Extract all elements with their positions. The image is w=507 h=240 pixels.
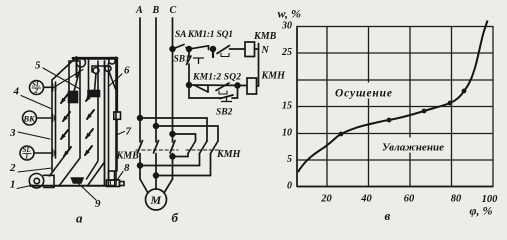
curve data point 2 xyxy=(387,118,392,123)
duct right wall xyxy=(115,57,117,185)
button SB2 actuator xyxy=(222,97,232,102)
axis bottom emphasized xyxy=(297,186,493,188)
grain flow arrow 8 xyxy=(85,146,92,155)
KMH linkage dashed xyxy=(186,149,221,151)
limit switch SQ1 blade xyxy=(217,46,230,54)
base line xyxy=(30,185,115,187)
grain flow arrow 1 xyxy=(61,94,68,103)
svg-text:30: 30 xyxy=(281,21,292,32)
gate 9 (black) xyxy=(72,178,84,183)
svg-text:5: 5 xyxy=(287,154,292,165)
body roof slant left xyxy=(52,59,75,81)
body top edge xyxy=(69,60,80,62)
leader line label 6 xyxy=(109,74,123,87)
pulley P1 xyxy=(77,58,86,67)
leader line label 5 xyxy=(43,68,80,89)
svg-text:10: 10 xyxy=(282,128,292,139)
grain flow arrow 4 xyxy=(87,110,94,119)
frame left post xyxy=(76,57,78,77)
right foot rect xyxy=(107,180,120,187)
node row2 xyxy=(187,83,192,88)
svg-text:8: 8 xyxy=(124,162,130,174)
right foot hatch xyxy=(111,180,115,187)
svg-text:φ, %: φ, % xyxy=(470,204,493,218)
horizontal gridline 20 xyxy=(297,79,493,81)
motor M circle xyxy=(146,189,167,210)
svg-text:М: М xyxy=(150,193,162,207)
phase line B xyxy=(155,18,157,142)
svg-text:КМВ: КМВ xyxy=(116,151,140,162)
grain flow arrow 7 xyxy=(64,147,71,156)
svg-text:9: 9 xyxy=(95,198,101,210)
contact KM1:2 blade xyxy=(194,85,208,92)
grain flow arrow 5 xyxy=(61,130,68,139)
svg-text:SB2: SB2 xyxy=(216,108,233,118)
node after KM1:1 xyxy=(211,47,216,52)
pulley P3 xyxy=(93,68,99,74)
node on C for control circuit xyxy=(170,47,175,52)
leader line label 2 xyxy=(18,168,52,172)
tap C to KMH xyxy=(170,132,175,137)
merge wire y156 xyxy=(173,156,189,158)
svg-text:25: 25 xyxy=(281,47,292,58)
svg-text:КМН: КМН xyxy=(216,149,242,160)
central channel wall left xyxy=(50,61,70,176)
svg-text:w, %: w, % xyxy=(278,7,302,21)
curve data point 5 xyxy=(462,89,467,94)
body right wall outer xyxy=(104,61,106,185)
leader line label 3 xyxy=(18,132,50,139)
fan hub xyxy=(34,178,39,183)
svg-text:5: 5 xyxy=(35,60,41,72)
body right wall inner xyxy=(97,61,99,160)
svg-text:КМН: КМН xyxy=(261,71,287,82)
weight sensor right (black) xyxy=(88,91,100,97)
limit switch SQ2 blade xyxy=(216,83,229,91)
KMB outputs down xyxy=(140,154,173,189)
coil KMB xyxy=(245,42,255,57)
curve data point 1 xyxy=(339,132,344,137)
switch box 8 at bottom of right rope xyxy=(109,171,115,180)
SB2 branch down xyxy=(189,85,238,98)
grain flow arrow 3 xyxy=(63,112,70,121)
leader line label 4 xyxy=(21,96,52,110)
motor lead right xyxy=(164,179,173,193)
KMH output 2 down xyxy=(199,154,201,166)
horizontal gridline 5 xyxy=(297,159,493,161)
horizontal gridline 25 xyxy=(297,52,493,54)
svg-text:3: 3 xyxy=(9,127,16,139)
counterweight box on right rope xyxy=(114,112,121,119)
curve data point 3 xyxy=(422,109,427,114)
leader line label 1 xyxy=(17,185,33,189)
motor lead left xyxy=(140,179,148,193)
button SB2 blade xyxy=(220,95,233,99)
sensor SL1 lead xyxy=(34,152,52,154)
tap B to KMH xyxy=(154,124,159,129)
vertical gridline 80 xyxy=(451,27,453,187)
svg-text:КМ1:2 SQ2: КМ1:2 SQ2 xyxy=(192,73,241,83)
curve data point 4 xyxy=(448,101,453,106)
svg-text:КМВ: КМВ xyxy=(253,31,277,42)
vertical gridline 60 xyxy=(409,27,411,187)
contactor KMB contact 3 xyxy=(170,141,175,154)
axis left emphasized xyxy=(296,27,298,187)
hopper right slant xyxy=(87,161,99,179)
rope right outside wall xyxy=(116,59,118,112)
horizontal gridline 15 xyxy=(297,106,493,108)
wire coil KMH to N xyxy=(257,85,259,87)
sensor SL1 circle xyxy=(20,146,34,160)
rope from bar to weight 2 xyxy=(88,59,90,91)
svg-text:ВК: ВК xyxy=(23,114,37,124)
vertical gridline 40 xyxy=(368,27,370,187)
leader line label 9 xyxy=(78,183,96,200)
leader line label 7 xyxy=(118,132,125,135)
phase line A xyxy=(139,18,141,142)
phase line C xyxy=(172,18,174,142)
sensor SL2 lead xyxy=(44,86,53,88)
pulley bracket bar xyxy=(92,65,109,67)
sensor SL1 wall tick xyxy=(53,150,56,157)
body left wall xyxy=(51,80,53,171)
svg-text:в: в xyxy=(385,208,391,223)
KMH output 3 down xyxy=(210,154,212,176)
node before coil KMH xyxy=(235,83,240,88)
svg-text:С: С xyxy=(170,5,177,16)
svg-text:1: 1 xyxy=(10,179,16,191)
vertical gridline 20 xyxy=(326,27,328,187)
apparatus top frame bar xyxy=(73,57,117,60)
svg-text:6: 6 xyxy=(124,65,130,77)
svg-text:А: А xyxy=(135,5,143,16)
wire SQ1 to coil KMB xyxy=(230,48,246,50)
grain flow arrow 6 xyxy=(86,129,93,138)
graph frame xyxy=(297,27,493,187)
svg-text:Осушение: Осушение xyxy=(335,88,392,100)
N line xyxy=(258,44,260,87)
svg-text:15: 15 xyxy=(282,101,292,112)
svg-text:2: 2 xyxy=(9,162,16,174)
rope from P3 to weight xyxy=(95,74,97,91)
svg-text:SB1: SB1 xyxy=(174,55,190,65)
contact KM1:1 blade xyxy=(191,46,209,49)
sensor BK circle xyxy=(23,111,37,125)
weight sensor left (black) xyxy=(69,92,78,103)
svg-text:4: 4 xyxy=(13,86,20,98)
KMB linkage dashed xyxy=(136,149,178,151)
pulley P2 xyxy=(109,58,115,64)
sensor SL2 wall tick xyxy=(53,84,56,91)
rope continues down xyxy=(116,119,118,171)
contactor KMH contact 2 xyxy=(200,141,208,154)
svg-text:40: 40 xyxy=(360,194,372,205)
svg-text:N: N xyxy=(261,45,270,56)
hopper right slant lower xyxy=(88,162,105,185)
sensor BK wall tick xyxy=(53,115,56,122)
central channel wall right xyxy=(59,61,80,186)
svg-text:а: а xyxy=(76,211,83,226)
node after SA xyxy=(187,47,192,52)
switch SA blade xyxy=(173,45,185,50)
rope from P1 to weight xyxy=(74,67,81,92)
svg-text:80: 80 xyxy=(451,194,462,205)
wire SB1 vertical xyxy=(188,49,190,85)
svg-text:20: 20 xyxy=(320,194,332,205)
moisture curve xyxy=(298,21,488,173)
svg-text:60: 60 xyxy=(404,194,415,205)
button SB1 actuator xyxy=(194,58,204,64)
svg-text:В: В xyxy=(152,5,160,16)
fan outlet box xyxy=(44,175,55,187)
sensor SL2 circle xyxy=(30,81,44,95)
merge wire y175 xyxy=(156,175,211,177)
contactor KMH contact 3 xyxy=(211,141,219,154)
contactor KMB contact 2 xyxy=(154,141,159,154)
contactor KMH contact 1 xyxy=(188,141,196,154)
merge wire y165 xyxy=(140,165,200,167)
moistening label knockout xyxy=(380,138,447,153)
duct left wall xyxy=(108,63,110,185)
body left wall inner line xyxy=(55,82,57,158)
pulley P4 xyxy=(105,66,111,72)
fan housing circle xyxy=(29,174,43,188)
coil KMH xyxy=(247,78,257,94)
svg-text:0: 0 xyxy=(287,181,292,192)
svg-text:SA КМ1:1 SQ1: SA КМ1:1 SQ1 xyxy=(175,30,233,40)
tap A to KMH xyxy=(138,116,143,121)
contactor KMB contact 1 xyxy=(138,141,143,154)
rope from P4 diagonal to right wall xyxy=(109,72,116,90)
grain flow arrow 2 xyxy=(86,92,93,101)
svg-text:7: 7 xyxy=(126,126,132,138)
drying label knockout xyxy=(333,83,394,99)
svg-text:Увлажнение: Увлажнение xyxy=(382,142,444,154)
button SB1 blade xyxy=(187,56,192,65)
sensor link diagonal xyxy=(52,70,83,89)
SQ2 bracket xyxy=(219,91,227,94)
KMH output 1 down xyxy=(187,154,189,157)
sensor BK lead xyxy=(37,117,53,119)
KM1:1 bar xyxy=(212,49,214,57)
row2 wire xyxy=(189,84,247,87)
small stub right of foot xyxy=(120,182,125,186)
svg-text:б: б xyxy=(172,210,179,225)
leader line label 8 xyxy=(117,172,123,181)
horizontal gridline 10 xyxy=(297,133,493,135)
wire coil KMB to N xyxy=(255,48,259,50)
SQ1 bracket xyxy=(221,54,229,57)
pulley bracket stem xyxy=(91,66,93,72)
